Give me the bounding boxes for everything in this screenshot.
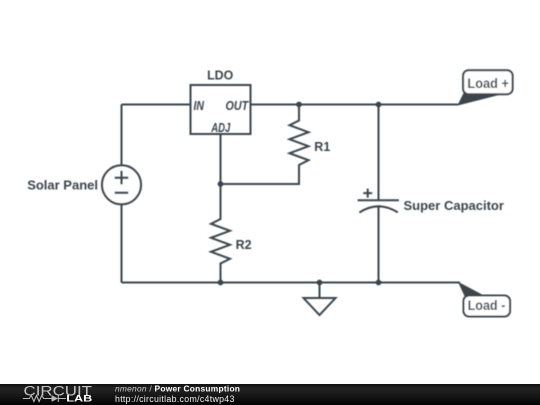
svg-text:IN: IN [194, 98, 205, 113]
svg-text:Load -: Load - [468, 298, 506, 313]
svg-text:ADJ: ADJ [210, 120, 230, 135]
svg-text:Solar Panel: Solar Panel [27, 178, 98, 193]
svg-text:Super Capacitor: Super Capacitor [404, 198, 504, 213]
svg-text:R1: R1 [314, 140, 330, 154]
svg-text:LDO: LDO [207, 69, 233, 83]
svg-text:http://circuitlab.com/c4twp43: http://circuitlab.com/c4twp43 [115, 394, 235, 404]
svg-text:OUT: OUT [226, 98, 250, 113]
svg-text:R2: R2 [236, 238, 252, 252]
svg-text:nmenon / Power Consumption: nmenon / Power Consumption [115, 384, 240, 394]
svg-text:LAB: LAB [66, 393, 92, 404]
svg-text:Load +: Load + [467, 76, 509, 91]
